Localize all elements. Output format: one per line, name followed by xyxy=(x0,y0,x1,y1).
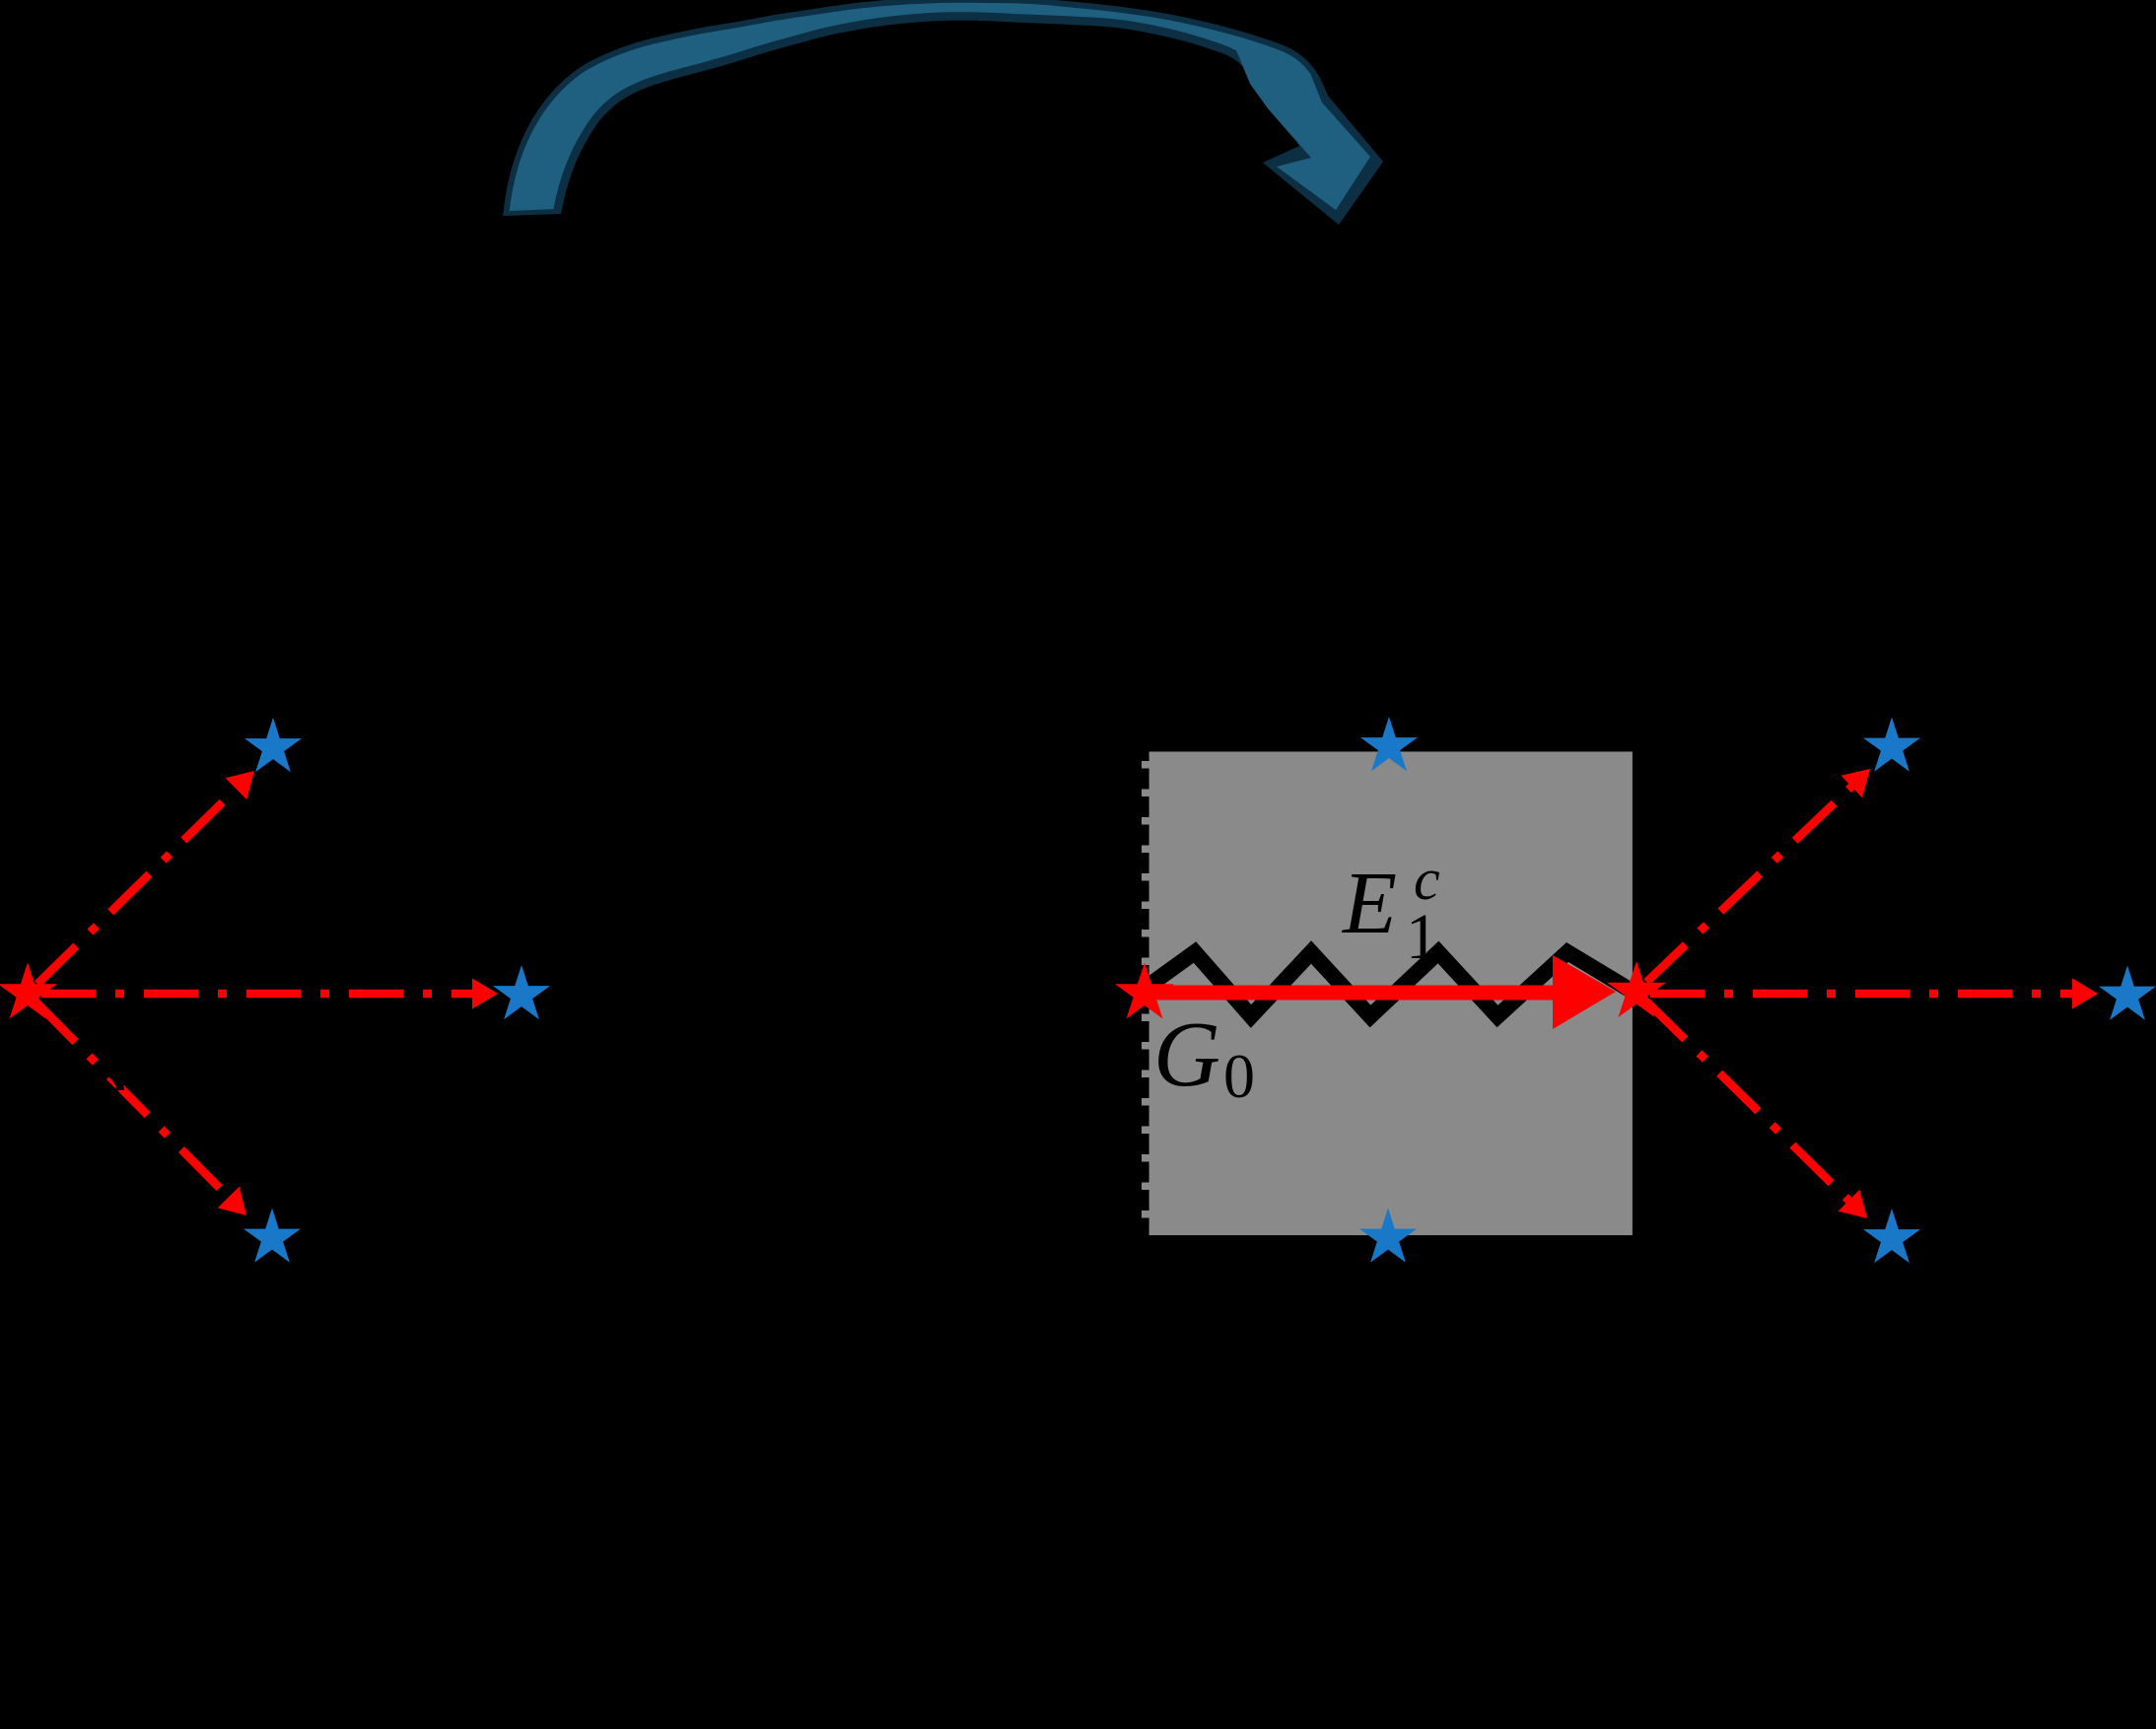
blue star square-top xyxy=(1360,717,1418,771)
blue star left-mid xyxy=(493,965,550,1019)
curved coarse-graining arrow (teal swoosh) xyxy=(503,0,1383,225)
dashed tick line on left edge of square xyxy=(1142,761,1149,1235)
dash-dot arrow left-up xyxy=(28,789,237,994)
dash-dot arrow right-up xyxy=(1636,787,1851,992)
red star left of square xyxy=(1115,963,1174,1019)
solid red arrow across square xyxy=(1145,986,1558,1001)
svg-text:E: E xyxy=(1341,855,1397,952)
blue star right-mid xyxy=(2099,966,2156,1020)
red star right of square xyxy=(1607,961,1666,1017)
gray square region E1c xyxy=(1149,752,1633,1236)
dash-dot arrow right-mid xyxy=(1636,990,2072,999)
red star far left xyxy=(0,963,57,1019)
blue star left-bottom xyxy=(243,1209,301,1263)
svg-text:G: G xyxy=(1153,1003,1220,1106)
blue star square-bottom xyxy=(1359,1209,1417,1263)
dash-dot arrow left-mid xyxy=(28,990,472,999)
blue star right-top xyxy=(1863,718,1920,772)
black zigzag path G0 xyxy=(1148,952,1634,1016)
black arc fragment over left-down dash xyxy=(103,1071,120,1090)
dash-dot arrow left-down xyxy=(28,994,229,1198)
dash-dot arrow right-down xyxy=(1636,992,1849,1201)
blue star right-bottom xyxy=(1863,1209,1920,1263)
blue star left-top xyxy=(244,718,302,772)
svg-text:1: 1 xyxy=(1406,901,1438,973)
teal highlight of swoosh xyxy=(509,3,1370,213)
svg-text:0: 0 xyxy=(1223,1041,1255,1111)
